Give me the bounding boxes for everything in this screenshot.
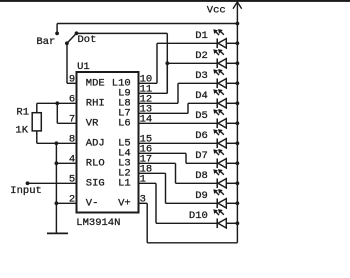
svg-text:MDE: MDE: [86, 78, 105, 90]
wire: pin L-output row 1 stub: [139, 92, 168, 94]
wire: pin 2 stub (V-): [56, 202, 76, 204]
svg-text:D4: D4: [195, 90, 208, 102]
wire: riser to LED D1 row: [156, 43, 158, 83]
node: D8 anode / Vcc rail junction: [236, 181, 240, 185]
node: D3 anode / Vcc rail junction: [236, 81, 240, 85]
switch SW1 lever (pole to Dot contact): [67, 33, 77, 43]
wire: R1 bottom lead: [36, 131, 38, 143]
node: L9 / LED D2 junction: [165, 61, 169, 65]
wire: R1 top to pin 6 (RHI): [37, 102, 77, 104]
wire: Bar contact to Vcc rail: [57, 23, 237, 25]
svg-text:D10: D10: [189, 210, 208, 222]
svg-text:ADJ: ADJ: [86, 138, 105, 150]
node: D6 anode / Vcc rail junction: [236, 141, 240, 145]
wire: pin 3 stub (V+): [139, 202, 148, 204]
wire: pin L-output row 2 stub: [139, 102, 179, 104]
svg-text:RHI: RHI: [86, 98, 105, 110]
wire: L9 net riser (Dot wire down to pin 11): [166, 33, 168, 93]
svg-text:Vcc: Vcc: [207, 4, 226, 16]
wire: Bar contact riser: [56, 24, 58, 34]
svg-text:D8: D8: [195, 170, 208, 182]
wire: pin 15 (L5) straight to LED D6: [139, 142, 218, 144]
node: Dot switch contact: [75, 31, 79, 35]
wire: tee down to pin 7 (VR): [56, 103, 58, 123]
node: V-/ground junction: [55, 201, 59, 205]
LED D1: [214, 30, 238, 49]
wire: to LED D3 cathode: [178, 82, 217, 84]
node: D4 anode / Vcc rail junction: [236, 101, 240, 105]
wire: pin 4 stub (RLO): [56, 162, 76, 164]
svg-text:Bar: Bar: [36, 36, 55, 48]
node: D5 anode / Vcc rail junction: [236, 121, 240, 125]
svg-text:L1: L1: [118, 178, 131, 190]
LED D4: [214, 90, 238, 109]
wire: ground rail vertical: [55, 143, 57, 233]
node: RHI/VR tee junction: [55, 101, 59, 105]
wire: riser to LED D9 row: [165, 173, 167, 203]
node: D7 anode / Vcc rail junction: [236, 161, 240, 165]
wire: to LED D10 cathode: [156, 222, 217, 224]
node: D2 anode / Vcc rail junction: [236, 61, 240, 65]
svg-text:RLO: RLO: [86, 158, 105, 170]
wire: to LED D9 cathode: [166, 202, 218, 204]
node: Input terminal: [26, 181, 30, 185]
resistor R1 body: [32, 113, 41, 131]
wire: R1 top lead: [36, 103, 38, 112]
wire: riser to LED D3 row: [177, 83, 179, 103]
wire: pin 9 stub: [67, 82, 77, 84]
wire: riser to LED D10 row: [155, 183, 157, 223]
LED D2: [214, 50, 238, 69]
svg-text:D2: D2: [195, 50, 208, 62]
op-amp-driver U1 body (LM3914N box): [77, 72, 139, 213]
LED D5: [214, 110, 238, 129]
svg-text:Input: Input: [10, 185, 42, 197]
node: RLO/ground junction: [55, 161, 59, 165]
LED D10: [214, 210, 238, 229]
node: Bar switch contact: [55, 32, 59, 36]
wire: switch pole down to pin 9: [66, 43, 68, 83]
svg-text:Dot: Dot: [78, 34, 97, 46]
wire: pin L-output row 9 stub: [139, 172, 166, 174]
wire: riser to LED D4 row: [187, 103, 189, 113]
LED D3: [214, 70, 238, 89]
wire: LED D2 cathode run: [167, 62, 217, 64]
wire: riser to LED D8 row: [175, 163, 177, 183]
svg-text:SIG: SIG: [86, 178, 105, 190]
svg-text:D1: D1: [195, 30, 208, 42]
svg-text:9: 9: [69, 74, 75, 86]
svg-text:D7: D7: [195, 150, 208, 162]
svg-text:LM3914N: LM3914N: [76, 217, 120, 229]
svg-text:D6: D6: [195, 130, 208, 142]
wire: Vcc rail vertical: [236, 2, 238, 243]
svg-text:V-: V-: [86, 198, 99, 210]
wire: Dot contact to L9 net: [77, 32, 168, 34]
ground symbol: [47, 232, 68, 234]
node: ADJ/ground junction: [55, 141, 59, 145]
wire: V+ bottom run to rail: [147, 242, 237, 244]
LED D9: [214, 190, 238, 209]
wire: pin 7 stub: [57, 122, 76, 124]
wire: to LED D8 cathode: [176, 182, 218, 184]
wire: to LED D1 cathode: [157, 42, 217, 44]
wire: to LED D4 cathode: [188, 102, 217, 104]
node: D10 anode / Vcc rail junction: [236, 221, 240, 225]
wire: pin L-output row 8 stub: [139, 162, 176, 164]
wire: riser to LED D2 row: [166, 63, 168, 93]
LED D8: [214, 170, 238, 189]
svg-text:VR: VR: [86, 118, 99, 130]
LED D6: [214, 130, 238, 149]
svg-text:R1: R1: [16, 106, 29, 118]
wire: to LED D7 cathode: [186, 162, 217, 164]
node: Vcc rail / Bar-mode wire junction: [236, 22, 240, 26]
svg-text:D5: D5: [195, 110, 208, 122]
wire: pin L-output row 3 stub: [139, 112, 189, 114]
LED D7: [214, 150, 238, 169]
svg-text:1K: 1K: [15, 125, 28, 137]
wire: pin L-output row 7 stub: [139, 152, 187, 154]
wire: R1 bottom to pin 8 (ADJ): [37, 142, 77, 144]
svg-text:D3: D3: [195, 70, 208, 82]
svg-text:V+: V+: [118, 198, 131, 210]
svg-text:L6: L6: [118, 118, 131, 130]
node: switch pole: [65, 41, 69, 45]
top border line: [0, 0, 350, 2]
wire: pin 14 (L6) straight to LED D5: [139, 122, 218, 124]
node: D9 anode / Vcc rail junction: [236, 201, 240, 205]
node: D1 anode / Vcc rail junction: [236, 41, 240, 45]
wire: riser to LED D7 row: [185, 153, 187, 163]
wire: pin L-output row 0 stub: [139, 82, 158, 84]
svg-text:D9: D9: [195, 190, 208, 202]
wire: V+ riser down: [146, 203, 148, 243]
wire: pin L-output row 10 stub: [139, 182, 157, 184]
Vcc arrow (power symbol): [233, 2, 242, 9]
wire: Input to pin 5 (SIG): [28, 182, 77, 184]
